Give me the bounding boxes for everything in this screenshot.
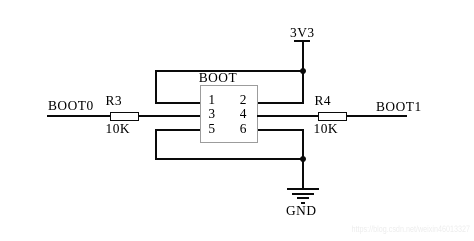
wire pin6 to GND net (257, 129, 304, 131)
power 3V3 bar symbol (294, 40, 310, 42)
resistor R4 value 10K (314, 122, 339, 135)
resistor R4 (318, 112, 347, 121)
wire top loop left vertical (155, 70, 157, 105)
ground bar 2 (292, 193, 314, 195)
resistor R4 label (315, 94, 332, 107)
ground GND label (286, 204, 317, 217)
wire bottom loop left vertical (155, 129, 157, 160)
junction dot 3V3 net (300, 68, 306, 74)
part name BOOT (199, 71, 237, 84)
watermark (294, 224, 470, 234)
wire R3 to pin3 (139, 115, 201, 117)
ground bar 4 (301, 202, 305, 204)
ground bar 1 (287, 188, 320, 190)
wire pin4 to R4 (257, 115, 319, 117)
node BOOT0 (48, 99, 94, 112)
resistor R3 (110, 112, 140, 121)
wire BOOT0 to R3 (47, 115, 110, 117)
pin 1 (207, 93, 217, 106)
power 3V3 label (290, 26, 315, 39)
pin 2 (238, 93, 248, 106)
pin 6 (238, 122, 248, 135)
resistor R3 value 10K (106, 122, 131, 135)
pin 4 (238, 107, 248, 120)
node BOOT1 (376, 100, 422, 113)
wire R4 to BOOT1 (347, 115, 408, 117)
wire 3V3 stem vertical (302, 42, 304, 104)
resistor R3 label (106, 94, 123, 107)
pin 5 (207, 122, 217, 135)
wire to pin5 (155, 129, 201, 131)
op jumper block U BOOT box (200, 85, 258, 143)
ground bar 3 (297, 197, 309, 199)
wire to pin1 (155, 102, 201, 104)
junction dot GND net (300, 156, 306, 162)
pin 3 (207, 107, 217, 120)
wire bottom loop horizontal (pin5 loop to GND) (155, 158, 304, 160)
wire top loop horizontal (3V3 to pin1 loop) (155, 70, 304, 72)
wire GND vertical (302, 129, 304, 189)
wire pin2 to 3V3 net (257, 102, 304, 104)
